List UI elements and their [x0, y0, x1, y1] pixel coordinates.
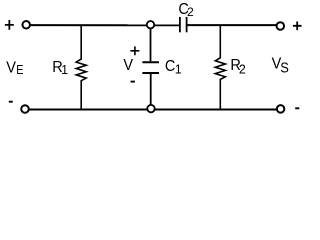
svg-text:V: V [123, 57, 133, 74]
wire: top rail right segment (C2 right plate to output + terminal) [188, 24, 281, 26]
terminal circle output - [277, 105, 285, 113]
svg-text:2: 2 [187, 5, 194, 19]
capacitor C1 top plate [142, 61, 159, 63]
capacitor C2 left plate [179, 17, 181, 32]
svg-text:2: 2 [239, 62, 246, 76]
label + at input terminal [5, 20, 14, 30]
label + of V across C1 [130, 46, 139, 55]
wire: bottom rail (input - terminal to output - terminal) [25, 109, 281, 111]
capacitor C2 right plate [186, 17, 188, 32]
terminal circle input - [21, 105, 29, 113]
capacitor C1 top stem [150, 25, 152, 61]
label - of V across C1 [131, 81, 135, 83]
wire: top rail left segment (input + terminal to C2 left plate) [26, 24, 179, 26]
capacitor C1 bottom plate [142, 72, 159, 74]
svg-text:E: E [16, 63, 23, 77]
svg-text:S: S [280, 60, 289, 76]
terminal circle output + [277, 22, 285, 30]
node junction at top of C1 [147, 21, 154, 28]
label + at output terminal [293, 22, 302, 31]
node junction at bottom of C1 [147, 105, 154, 112]
resistor R1 [76, 25, 86, 109]
svg-text:1: 1 [175, 63, 182, 77]
svg-text:1: 1 [61, 63, 68, 77]
resistor R2 [215, 25, 225, 109]
label - at input terminal [9, 101, 13, 103]
capacitor C1 bottom stem [150, 74, 152, 109]
terminal circle input + [22, 21, 30, 29]
label - at output terminal [295, 107, 299, 109]
svg-text:V: V [6, 60, 16, 77]
